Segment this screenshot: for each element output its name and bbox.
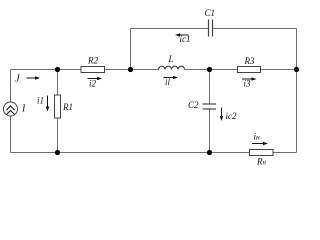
wire main horizontal L to node C (185, 69, 238, 71)
node dot C2 branch top (207, 67, 212, 72)
label ic1 arrow left (175, 33, 189, 37)
svg-text:Rн: Rн (256, 157, 267, 167)
svg-text:C1: C1 (205, 8, 216, 18)
svg-text:R3: R3 (244, 56, 255, 66)
resistor R2 (81, 67, 105, 73)
wire R1 branch top (57, 70, 59, 96)
wire C2 branch bottom (209, 109, 211, 153)
label i2 arrow (88, 77, 103, 81)
svg-text:ic1: ic1 (180, 34, 191, 44)
svg-text:i1: i1 (37, 96, 44, 106)
resistor R1 (55, 95, 61, 118)
node dot R1 bottom (55, 150, 60, 155)
current source I (4, 102, 18, 116)
wire left vertical above source (10, 70, 12, 103)
wire main horizontal R2 to L (105, 69, 159, 71)
inductor L (159, 66, 185, 69)
wire bottom horizontal left segment (11, 152, 250, 154)
wire R1 branch bottom (57, 118, 59, 153)
svg-text:J: J (15, 74, 21, 85)
wire C1 branch vertical (130, 29, 132, 70)
resistor R3 (238, 67, 261, 73)
wire top horizontal left of C1 (131, 28, 209, 30)
resistor Rn (250, 150, 274, 156)
wire C2 branch top (209, 70, 211, 105)
wire bottom horizontal right of Rn (273, 152, 297, 154)
node dot C1 branch (128, 67, 133, 72)
label i3 arrow (242, 77, 257, 81)
svg-text:I: I (21, 104, 26, 115)
capacitor C2 (203, 104, 217, 109)
svg-text:ic2: ic2 (226, 111, 237, 121)
label il arrow (164, 76, 179, 80)
capacitor C1 (209, 20, 213, 37)
svg-text:C2: C2 (188, 100, 199, 110)
svg-text:R2: R2 (87, 56, 98, 66)
wire main horizontal left segment (11, 69, 82, 71)
wire main horizontal R3 to right node (261, 69, 297, 71)
wire top horizontal right of C1 (213, 28, 297, 30)
node dot C2 branch bottom (207, 150, 212, 155)
label ic2 arrow down (220, 108, 224, 122)
svg-text:il: il (165, 77, 171, 87)
svg-text:R1: R1 (62, 102, 73, 112)
svg-text:i2: i2 (89, 79, 97, 89)
wire right vertical (296, 29, 298, 153)
svg-text:L: L (168, 54, 174, 64)
svg-text:i3: i3 (244, 79, 252, 89)
svg-text:iн: iн (254, 132, 261, 142)
node dot R1 top (55, 67, 60, 72)
wire left vertical below source (10, 116, 12, 153)
node dot right (294, 67, 299, 72)
